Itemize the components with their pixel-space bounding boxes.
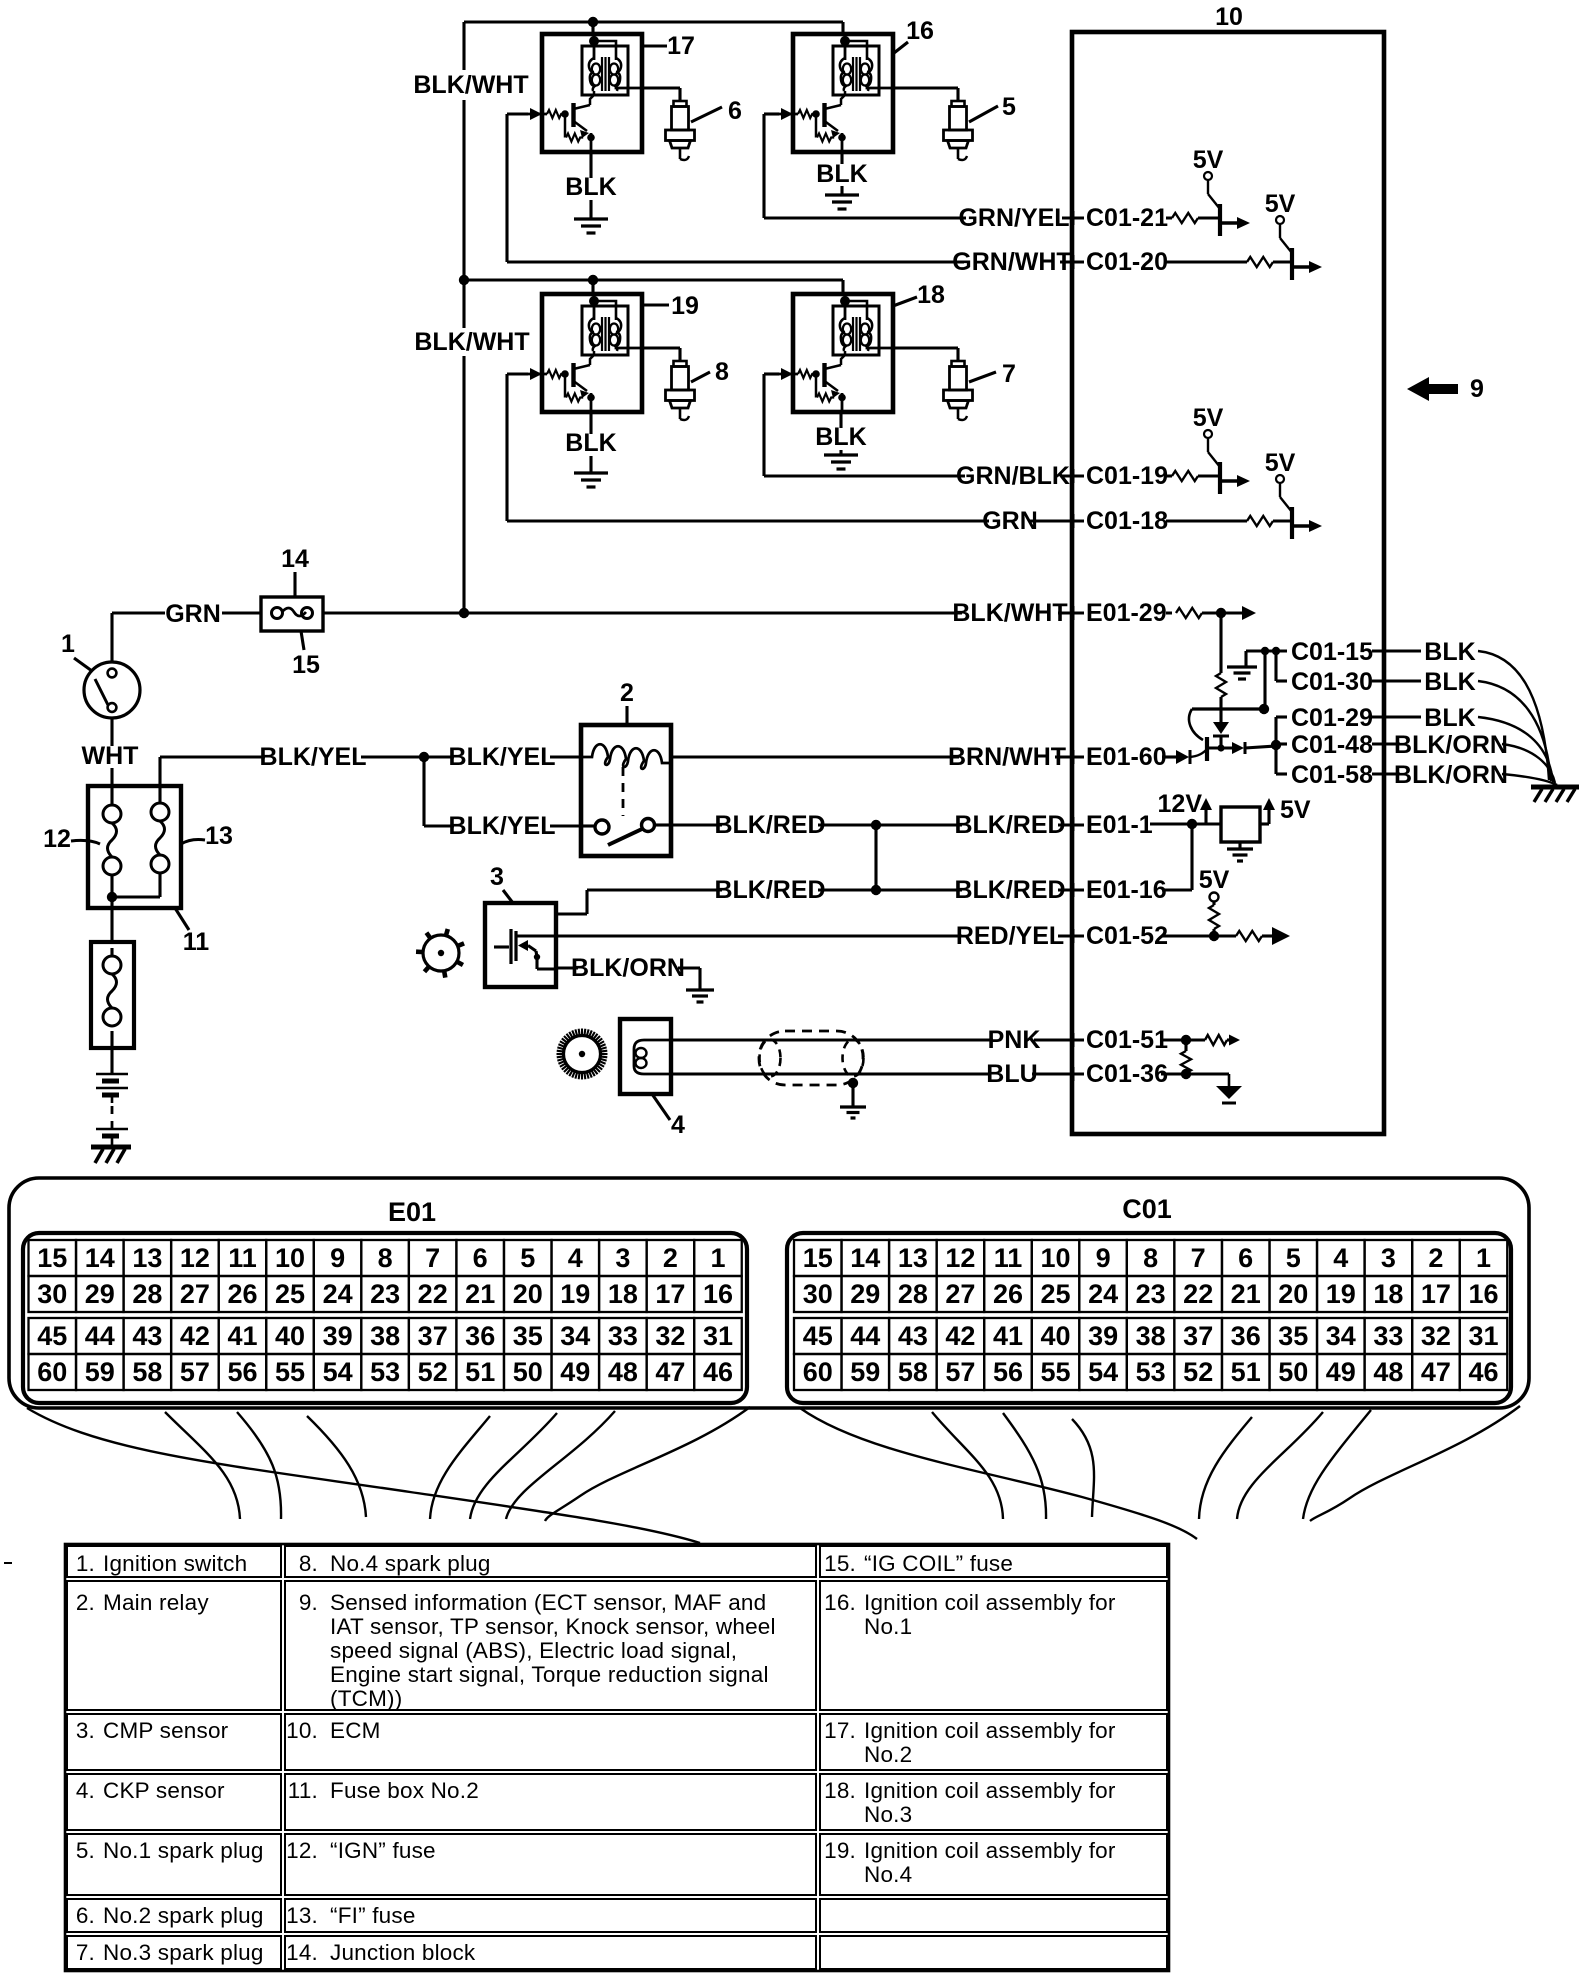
svg-text:49: 49 bbox=[1326, 1357, 1356, 1387]
svg-text:58: 58 bbox=[132, 1357, 162, 1387]
wire R to Q (C01-19) bbox=[1198, 474, 1220, 477]
svg-text:BLK/WHT: BLK/WHT bbox=[414, 328, 529, 356]
svg-text:1.: 1. bbox=[76, 1551, 95, 1576]
svg-text:18: 18 bbox=[608, 1279, 638, 1309]
svg-text:50: 50 bbox=[1278, 1357, 1308, 1387]
svg-text:No.2 spark plug: No.2 spark plug bbox=[103, 1903, 264, 1928]
svg-text:Ignition coil assembly for: Ignition coil assembly for bbox=[864, 1590, 1116, 1615]
svg-text:26: 26 bbox=[227, 1279, 257, 1309]
ECM box (10) bbox=[1072, 32, 1384, 1134]
svg-text:Ignition coil assembly for: Ignition coil assembly for bbox=[864, 1838, 1116, 1863]
wire coil18 to spark plug 7 bbox=[893, 346, 958, 349]
label BLK/RED (E01-16) bbox=[962, 880, 1058, 902]
label 19 leader bbox=[640, 303, 669, 306]
svg-text:C01-21: C01-21 bbox=[1086, 204, 1168, 232]
svg-text:1: 1 bbox=[710, 1243, 725, 1273]
svg-text:“IGN” fuse: “IGN” fuse bbox=[330, 1838, 436, 1863]
svg-text:3: 3 bbox=[490, 863, 504, 891]
label 1 leader bbox=[74, 658, 92, 671]
svg-text:10: 10 bbox=[275, 1243, 305, 1273]
spark plug 6 bbox=[666, 101, 695, 160]
svg-text:14.: 14. bbox=[286, 1940, 318, 1965]
svg-text:RED/YEL: RED/YEL bbox=[956, 922, 1064, 950]
emitter line with diode D3 bbox=[1207, 746, 1232, 749]
svg-text:52: 52 bbox=[418, 1357, 448, 1387]
wire E01-16 internal bbox=[1162, 888, 1192, 891]
svg-text:BLK: BLK bbox=[1424, 668, 1475, 696]
svg-text:Engine start signal, Torque re: Engine start signal, Torque reduction si… bbox=[330, 1662, 769, 1687]
label 14 leader bbox=[293, 572, 296, 597]
E01 connector body bbox=[23, 1233, 747, 1403]
spark plug 7 bbox=[944, 361, 973, 420]
arrow C01-52 bbox=[1262, 934, 1274, 937]
svg-text:CKP sensor: CKP sensor bbox=[103, 1778, 225, 1803]
wire coil19 base GRN to C01-18 bbox=[507, 372, 528, 375]
svg-text:9: 9 bbox=[1096, 1243, 1111, 1273]
wire E01-1 internal to regulator bbox=[1150, 822, 1221, 825]
svg-text:41: 41 bbox=[227, 1321, 257, 1351]
svg-text:24: 24 bbox=[1088, 1279, 1118, 1309]
common chassis ground (right) bbox=[1531, 785, 1579, 790]
svg-text:C01-30: C01-30 bbox=[1291, 668, 1373, 696]
relay coil bbox=[583, 744, 671, 769]
label BLK (coil 16) bbox=[821, 164, 862, 186]
svg-text:No.3 spark plug: No.3 spark plug bbox=[103, 1940, 264, 1965]
wire BLK/YEL fuse13 to relay coil bbox=[158, 757, 161, 786]
svg-text:15.: 15. bbox=[824, 1551, 856, 1576]
svg-text:Ignition coil assembly for: Ignition coil assembly for bbox=[864, 1718, 1116, 1743]
diode D1 (down) bbox=[1213, 722, 1229, 734]
svg-text:59: 59 bbox=[85, 1357, 115, 1387]
label BLK/RED (CMP) bbox=[722, 880, 818, 902]
svg-text:18.: 18. bbox=[824, 1778, 856, 1803]
svg-text:BLK/YEL: BLK/YEL bbox=[260, 743, 367, 771]
svg-text:6: 6 bbox=[1238, 1243, 1253, 1273]
svg-text:8.: 8. bbox=[299, 1551, 318, 1576]
svg-text:31: 31 bbox=[1468, 1321, 1498, 1351]
wire BLK/YEL lower to relay contact bbox=[422, 757, 425, 826]
svg-text:11: 11 bbox=[994, 1243, 1023, 1273]
wire GRN ignition switch to junction block bbox=[112, 611, 165, 614]
label GRN/YEL bbox=[966, 208, 1062, 230]
wire vertical BLK/WHT feeder bbox=[462, 22, 465, 70]
svg-text:6.: 6. bbox=[76, 1903, 95, 1928]
CKP pickup coil bbox=[634, 1040, 671, 1074]
svg-text:56: 56 bbox=[993, 1357, 1023, 1387]
junction of feeder and second bus bbox=[459, 275, 469, 285]
junction dot BLK/YEL bbox=[419, 752, 429, 762]
fuse 13 (FI) bbox=[158, 786, 161, 803]
svg-text:No.4: No.4 bbox=[864, 1862, 912, 1887]
svg-text:E01: E01 bbox=[388, 1197, 436, 1227]
wire C01-36 internal bbox=[1161, 1072, 1229, 1075]
chassis ground (battery) bbox=[91, 1145, 131, 1150]
svg-text:60: 60 bbox=[803, 1357, 833, 1387]
wire R to Q (C01-18) bbox=[1273, 519, 1292, 522]
label BLK (coil 19) bbox=[570, 434, 611, 456]
svg-text:No.1 spark plug: No.1 spark plug bbox=[103, 1838, 264, 1863]
svg-text:11.: 11. bbox=[288, 1778, 318, 1803]
svg-text:32: 32 bbox=[655, 1321, 685, 1351]
voltage regulator box bbox=[1221, 807, 1260, 842]
svg-text:2: 2 bbox=[663, 1243, 678, 1273]
label BLU bbox=[991, 1064, 1032, 1086]
svg-text:22: 22 bbox=[418, 1279, 448, 1309]
label 4 leader bbox=[652, 1094, 670, 1120]
svg-text:46: 46 bbox=[703, 1357, 733, 1387]
resistor R-C01-20 bbox=[1247, 257, 1273, 267]
label 17 leader bbox=[640, 44, 667, 47]
svg-text:49: 49 bbox=[560, 1357, 590, 1387]
svg-text:BLK: BLK bbox=[565, 429, 616, 457]
svg-text:42: 42 bbox=[180, 1321, 210, 1351]
svg-text:C01: C01 bbox=[1122, 1194, 1172, 1224]
label RED/YEL bbox=[962, 926, 1058, 948]
svg-text:47: 47 bbox=[655, 1357, 685, 1387]
connector housing outline bbox=[9, 1178, 1529, 1408]
svg-text:Junction block: Junction block bbox=[330, 1940, 476, 1965]
label E01-16 bbox=[1084, 880, 1166, 902]
wire E01-29 internal bbox=[1202, 611, 1246, 614]
dashed link to ground bbox=[111, 1106, 114, 1128]
svg-text:34: 34 bbox=[1326, 1321, 1356, 1351]
resistor R-E01-29 bbox=[1176, 608, 1202, 618]
svg-text:10: 10 bbox=[1040, 1243, 1070, 1273]
svg-text:6: 6 bbox=[473, 1243, 488, 1273]
wire coil16 emitter to ground bbox=[840, 152, 843, 194]
C01 harness wires bbox=[800, 1408, 1197, 1539]
svg-text:19.: 19. bbox=[824, 1838, 856, 1863]
svg-text:16: 16 bbox=[703, 1279, 733, 1309]
svg-text:55: 55 bbox=[275, 1357, 305, 1387]
junction on second bus above coil 19 bbox=[588, 275, 598, 285]
svg-text:16: 16 bbox=[906, 17, 934, 45]
bracket C01-30 bbox=[1274, 651, 1277, 681]
svg-text:GRN: GRN bbox=[982, 507, 1038, 535]
svg-text:13: 13 bbox=[205, 822, 233, 850]
wire coil19 to spark plug 8 bbox=[642, 346, 680, 349]
label GRN bbox=[172, 604, 213, 626]
ground (C01-15 net) bbox=[1227, 665, 1257, 668]
svg-text:Ignition switch: Ignition switch bbox=[103, 1551, 247, 1576]
svg-text:18: 18 bbox=[1373, 1279, 1403, 1309]
svg-text:Main relay: Main relay bbox=[103, 1590, 209, 1615]
svg-text:14: 14 bbox=[850, 1243, 880, 1273]
label C01-48 bbox=[1289, 736, 1371, 758]
svg-text:BLK/RED: BLK/RED bbox=[954, 811, 1065, 839]
svg-text:IAT sensor, TP sensor, Knock s: IAT sensor, TP sensor, Knock sensor, whe… bbox=[330, 1614, 776, 1639]
svg-text:15: 15 bbox=[37, 1243, 67, 1273]
wire shield to ground bbox=[851, 1083, 854, 1106]
svg-text:40: 40 bbox=[275, 1321, 305, 1351]
svg-text:2: 2 bbox=[1428, 1243, 1443, 1273]
label PNK bbox=[993, 1030, 1034, 1052]
ground (shield) bbox=[840, 1105, 866, 1108]
svg-text:6: 6 bbox=[728, 97, 742, 125]
label BLK/RED (relay) bbox=[722, 816, 818, 838]
svg-text:C01-15: C01-15 bbox=[1291, 638, 1373, 666]
svg-text:55: 55 bbox=[1040, 1357, 1070, 1387]
ground (CMP) bbox=[686, 988, 714, 991]
collector rail bbox=[1192, 707, 1264, 710]
svg-text:16.: 16. bbox=[824, 1590, 856, 1615]
wire C01-15 to BLK bbox=[1372, 649, 1421, 652]
svg-text:Ignition coil assembly for: Ignition coil assembly for bbox=[864, 1778, 1116, 1803]
svg-text:GRN/BLK: GRN/BLK bbox=[956, 462, 1070, 490]
svg-text:52: 52 bbox=[1183, 1357, 1213, 1387]
svg-text:GRN: GRN bbox=[165, 600, 221, 628]
label BLK/YEL (1) bbox=[265, 748, 361, 770]
CMP sensor target wheel bbox=[423, 935, 459, 971]
svg-text:BLK/RED: BLK/RED bbox=[714, 876, 825, 904]
svg-text:7: 7 bbox=[1191, 1243, 1206, 1273]
svg-text:27: 27 bbox=[180, 1279, 210, 1309]
resistor R-C01-52 bbox=[1236, 931, 1262, 941]
svg-text:BRN/WHT: BRN/WHT bbox=[948, 743, 1066, 771]
fuse 12 (IGN) bbox=[110, 786, 113, 805]
wire pullup to C01-52 bbox=[1212, 929, 1215, 936]
svg-text:BLK/RED: BLK/RED bbox=[954, 876, 1065, 904]
svg-text:17.: 17. bbox=[824, 1718, 856, 1743]
relay dashed actuator link bbox=[622, 767, 625, 816]
svg-text:Fuse box No.2: Fuse box No.2 bbox=[330, 1778, 479, 1803]
svg-text:42: 42 bbox=[945, 1321, 975, 1351]
label 7 leader bbox=[969, 372, 996, 382]
wire CKP BLU to C01-36 bbox=[671, 1072, 1161, 1075]
ignition coil assembly U19 bbox=[526, 292, 642, 414]
ground (coil 19) bbox=[574, 471, 608, 474]
svg-text:BLK/YEL: BLK/YEL bbox=[449, 812, 556, 840]
CMP sensor internal element bbox=[494, 945, 509, 948]
transistor circuit Q-C01-18 with 5V pull-up bbox=[1265, 449, 1322, 539]
svg-text:2.: 2. bbox=[76, 1590, 95, 1615]
label BLK (C01-29) bbox=[1429, 708, 1470, 730]
arrow C01-51 bbox=[1227, 1038, 1231, 1041]
svg-text:15: 15 bbox=[803, 1243, 833, 1273]
svg-text:32: 32 bbox=[1421, 1321, 1451, 1351]
svg-text:48: 48 bbox=[1373, 1357, 1403, 1387]
svg-text:29: 29 bbox=[850, 1279, 880, 1309]
label GRN/BLK bbox=[965, 466, 1061, 488]
svg-text:22: 22 bbox=[1183, 1279, 1213, 1309]
svg-text:27: 27 bbox=[945, 1279, 975, 1309]
spark plug 5 bbox=[944, 101, 973, 160]
svg-text:19: 19 bbox=[671, 292, 699, 320]
svg-text:41: 41 bbox=[993, 1321, 1023, 1351]
svg-text:21: 21 bbox=[1231, 1279, 1261, 1309]
svg-text:12V: 12V bbox=[1158, 790, 1203, 818]
svg-text:35: 35 bbox=[1278, 1321, 1308, 1351]
svg-text:No.3: No.3 bbox=[864, 1802, 912, 1827]
svg-text:“FI” fuse: “FI” fuse bbox=[330, 1903, 416, 1928]
svg-text:C01-19: C01-19 bbox=[1086, 462, 1168, 490]
fuse box bottom wires bbox=[110, 875, 113, 897]
svg-text:BLK/ORN: BLK/ORN bbox=[571, 954, 685, 982]
svg-text:17: 17 bbox=[655, 1279, 685, 1309]
svg-text:8: 8 bbox=[378, 1243, 393, 1273]
wire coil18 base GRN/BLK to C01-19 bbox=[764, 372, 779, 375]
ground (coil 17) bbox=[574, 217, 608, 220]
svg-text:21: 21 bbox=[465, 1279, 495, 1309]
ground (regulator) bbox=[1238, 842, 1241, 848]
ground leads converge bbox=[1478, 651, 1549, 780]
label E01-60 bbox=[1084, 748, 1166, 770]
label BLK/RED (E01-1) bbox=[962, 816, 1058, 838]
svg-text:7.: 7. bbox=[76, 1940, 95, 1965]
rail to transistor curve bbox=[1189, 709, 1203, 740]
svg-text:1: 1 bbox=[61, 630, 75, 658]
arrow 9 (sensed information) bbox=[1407, 377, 1458, 401]
svg-text:C01-36: C01-36 bbox=[1086, 1060, 1168, 1088]
svg-text:No.4 spark plug: No.4 spark plug bbox=[330, 1551, 491, 1576]
svg-text:54: 54 bbox=[323, 1357, 353, 1387]
svg-text:39: 39 bbox=[1088, 1321, 1118, 1351]
shielded cable (dashed shield) bbox=[759, 1031, 863, 1085]
svg-text:20: 20 bbox=[513, 1279, 543, 1309]
svg-text:“IG COIL” fuse: “IG COIL” fuse bbox=[864, 1551, 1013, 1576]
label C01-51 bbox=[1084, 1030, 1166, 1052]
svg-text:C01-58: C01-58 bbox=[1291, 761, 1373, 789]
label GRN/WHT bbox=[964, 252, 1060, 274]
svg-text:WHT: WHT bbox=[82, 742, 139, 770]
svg-text:51: 51 bbox=[465, 1357, 495, 1387]
svg-text:34: 34 bbox=[560, 1321, 590, 1351]
svg-text:12: 12 bbox=[180, 1243, 210, 1273]
wire junction block to ECM E01-29 (BLK/WHT) bbox=[323, 611, 1172, 614]
label 13 leader bbox=[181, 840, 205, 845]
svg-text:BLK/YEL: BLK/YEL bbox=[449, 743, 556, 771]
svg-text:14: 14 bbox=[281, 545, 309, 573]
label BLK (C01-15) bbox=[1429, 642, 1470, 664]
svg-text:8: 8 bbox=[1143, 1243, 1158, 1273]
svg-text:35: 35 bbox=[513, 1321, 543, 1351]
ignition coil assembly U17 bbox=[526, 32, 642, 154]
svg-text:E01-60: E01-60 bbox=[1086, 743, 1167, 771]
svg-text:19: 19 bbox=[560, 1279, 590, 1309]
svg-text:3: 3 bbox=[1381, 1243, 1396, 1273]
junction on top bus above coil 17 bbox=[588, 17, 598, 27]
svg-text:45: 45 bbox=[803, 1321, 833, 1351]
wire C01-30 to BLK bbox=[1372, 679, 1421, 682]
transistor circuit Q-C01-20 with 5V pull-up bbox=[1265, 190, 1322, 280]
svg-text:BLK: BLK bbox=[1424, 638, 1475, 666]
label BLK/WHT (top feeder) bbox=[423, 76, 519, 98]
svg-text:13: 13 bbox=[898, 1243, 928, 1273]
svg-text:17: 17 bbox=[667, 32, 695, 60]
svg-text:BLK: BLK bbox=[815, 423, 866, 451]
svg-text:C01-52: C01-52 bbox=[1086, 922, 1168, 950]
svg-text:46: 46 bbox=[1468, 1357, 1498, 1387]
svg-text:18: 18 bbox=[917, 281, 945, 309]
svg-text:16: 16 bbox=[1468, 1279, 1498, 1309]
label C01-52 bbox=[1084, 926, 1166, 948]
svg-text:5V: 5V bbox=[1199, 866, 1230, 894]
base curve bbox=[1190, 749, 1207, 757]
12V arrow bbox=[1204, 805, 1207, 824]
label 12 leader bbox=[71, 840, 100, 844]
label BLK/WHT (second feeder) bbox=[424, 332, 520, 354]
svg-text:BLK/WHT: BLK/WHT bbox=[413, 71, 528, 99]
ground (coil 18) bbox=[824, 453, 858, 456]
legend table bbox=[67, 1546, 281, 1577]
svg-text:5.: 5. bbox=[76, 1838, 95, 1863]
svg-text:E01-16: E01-16 bbox=[1086, 876, 1167, 904]
resistor divider C01-51/36 bbox=[1184, 1040, 1187, 1051]
svg-text:BLK/ORN: BLK/ORN bbox=[1394, 731, 1508, 759]
svg-text:23: 23 bbox=[370, 1279, 400, 1309]
svg-text:59: 59 bbox=[850, 1357, 880, 1387]
resistor R-C01-18 bbox=[1247, 516, 1273, 526]
wire C01-52 internal bbox=[1161, 934, 1236, 937]
label 16 leader bbox=[894, 42, 908, 53]
wire C01-15 net bbox=[1246, 649, 1287, 652]
svg-text:33: 33 bbox=[1373, 1321, 1403, 1351]
svg-text:BLK/RED: BLK/RED bbox=[714, 811, 825, 839]
svg-text:45: 45 bbox=[37, 1321, 67, 1351]
svg-text:30: 30 bbox=[803, 1279, 833, 1309]
label 15 leader bbox=[301, 631, 304, 650]
ignition coil assembly U18 bbox=[777, 292, 893, 414]
svg-text:10.: 10. bbox=[286, 1718, 318, 1743]
label BLK/ORN (C01-48) bbox=[1403, 736, 1499, 758]
wire relay contact to ECM E01-1 (BLK/RED) bbox=[671, 823, 1150, 826]
resistor R-C01-21 bbox=[1172, 213, 1198, 223]
main relay 2 box bbox=[581, 725, 671, 856]
svg-text:BLK: BLK bbox=[816, 160, 867, 188]
fuse box No.2 (11) bbox=[88, 786, 181, 908]
pin ticks on ECM left border bbox=[1072, 211, 1075, 225]
svg-text:13.: 13. bbox=[286, 1903, 318, 1928]
svg-text:CMP sensor: CMP sensor bbox=[103, 1718, 229, 1743]
CMP sensor 3 box bbox=[485, 903, 556, 987]
diode D2 at E01-60 base bbox=[1162, 755, 1176, 758]
svg-text:5: 5 bbox=[520, 1243, 535, 1273]
wire R to Q (C01-21) bbox=[1198, 216, 1220, 219]
svg-text:5: 5 bbox=[1002, 93, 1016, 121]
svg-text:38: 38 bbox=[1136, 1321, 1166, 1351]
ground (C01-36, filled) bbox=[1228, 1074, 1231, 1086]
svg-text:15: 15 bbox=[292, 651, 320, 679]
svg-text:48: 48 bbox=[608, 1357, 638, 1387]
ground (coil 16) bbox=[825, 193, 859, 196]
svg-text:36: 36 bbox=[1231, 1321, 1261, 1351]
wire BLK/WHT supply bus (second row) bbox=[464, 278, 843, 281]
svg-text:43: 43 bbox=[132, 1321, 162, 1351]
CKP sensor 4 box bbox=[620, 1019, 671, 1094]
svg-text:50: 50 bbox=[513, 1357, 543, 1387]
svg-text:BLK: BLK bbox=[1424, 704, 1475, 732]
svg-text:56: 56 bbox=[227, 1357, 257, 1387]
battery cell 2 bbox=[96, 1128, 128, 1131]
svg-text:57: 57 bbox=[180, 1357, 210, 1387]
svg-text:No.2: No.2 bbox=[864, 1742, 912, 1767]
svg-text:C01-20: C01-20 bbox=[1086, 248, 1168, 276]
svg-text:speed signal (ABS), Electric l: speed signal (ABS), Electric load signal… bbox=[330, 1638, 737, 1663]
resistor R pullup C01-52 bbox=[1209, 905, 1219, 929]
svg-text:38: 38 bbox=[370, 1321, 400, 1351]
svg-text:26: 26 bbox=[993, 1279, 1023, 1309]
shield drain junction bbox=[848, 1078, 858, 1088]
svg-text:53: 53 bbox=[1136, 1357, 1166, 1387]
svg-text:12.: 12. bbox=[286, 1838, 318, 1863]
label 11 leader bbox=[175, 908, 189, 930]
label BLK/YEL (3) bbox=[454, 816, 550, 838]
label BLK/YEL (2) bbox=[454, 748, 550, 770]
svg-text:28: 28 bbox=[132, 1279, 162, 1309]
svg-text:19: 19 bbox=[1326, 1279, 1356, 1309]
label C01-36 bbox=[1084, 1064, 1166, 1086]
svg-text:13: 13 bbox=[132, 1243, 162, 1273]
